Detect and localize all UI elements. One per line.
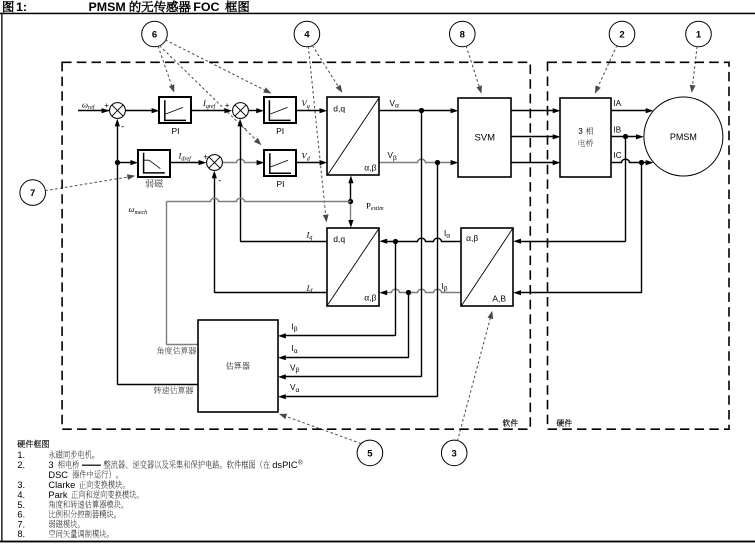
list item 7 text bbox=[49, 520, 80, 529]
svg-text:6: 6 bbox=[152, 29, 157, 40]
callout circle 7 bbox=[20, 180, 46, 206]
svg-text:PMSM: PMSM bbox=[89, 0, 126, 14]
svg-text:A,B: A,B bbox=[492, 294, 506, 304]
wire rho down to Park bbox=[350, 201, 352, 220]
svg-text:4: 4 bbox=[304, 29, 310, 40]
block 3-phase bridge bbox=[560, 98, 611, 177]
wire S1 to PI1 bbox=[125, 110, 152, 112]
svg-text:PI: PI bbox=[276, 179, 284, 189]
wire into estimator input 1 bbox=[285, 335, 395, 337]
wire Id feedback vertical bbox=[214, 178, 216, 293]
svg-text:8: 8 bbox=[460, 29, 465, 40]
wire IC to Clarke bbox=[520, 292, 641, 294]
block Park alpha,beta to d,q bbox=[327, 228, 379, 306]
callout circle 6 bbox=[142, 21, 168, 47]
wire Valpha inv-Park to SVM bbox=[379, 110, 451, 112]
wire IB bridge to PMSM bbox=[612, 136, 637, 138]
label 转速估算器 bbox=[154, 386, 193, 394]
wire Ialpha Clarke to Park bbox=[387, 238, 462, 241]
software dashed box bbox=[62, 62, 530, 429]
svg-text:-: - bbox=[218, 175, 221, 185]
label 硬件 bbox=[557, 419, 572, 426]
block SVM bbox=[458, 98, 511, 177]
svg-text:d,q: d,q bbox=[333, 234, 345, 244]
svg-text:-: - bbox=[244, 124, 247, 134]
wire PI1 to S2 (Iqref) bbox=[192, 110, 225, 112]
leader 6 to PI2 bbox=[165, 40, 264, 90]
leader 4 to inv-Park bbox=[312, 45, 338, 86]
wire speed node to FW block bbox=[117, 162, 131, 164]
svg-text:2.: 2. bbox=[17, 460, 25, 470]
list header 硬件框图 bbox=[17, 440, 49, 448]
block PI2 bbox=[264, 97, 296, 123]
label 软件 bbox=[503, 419, 518, 426]
frame bottom edge bbox=[0, 541, 755, 543]
leader 1 to PMSM bbox=[693, 46, 698, 85]
leader 6 to PI1 bbox=[158, 46, 172, 85]
node IC tap bbox=[639, 160, 644, 165]
list item 6 text bbox=[49, 510, 116, 519]
leader 8 to SVM bbox=[466, 46, 479, 87]
wire angle from estimator horizontal bbox=[167, 198, 351, 201]
svg-text:5: 5 bbox=[367, 448, 373, 459]
wire S3 to PI3 bbox=[222, 159, 257, 162]
svg-text:α,β: α,β bbox=[466, 233, 478, 243]
wire into estimator input 3 bbox=[285, 376, 421, 378]
leader 5 to estimator bbox=[286, 417, 361, 444]
callout circle 2 bbox=[609, 21, 635, 47]
svg-text:-: - bbox=[121, 122, 124, 132]
svg-text:1.: 1. bbox=[17, 450, 25, 460]
callout circle 4 bbox=[294, 21, 320, 47]
svg-text:3: 3 bbox=[452, 448, 457, 459]
wire speed feedback vertical bbox=[117, 126, 119, 385]
frame left edge bbox=[1, 13, 2, 542]
wire into estimator input 4 bbox=[285, 396, 437, 398]
wire Vbeta inv-Park to SVM bbox=[379, 159, 451, 162]
label 估算器 bbox=[226, 362, 250, 370]
wire Iq feedback vertical bbox=[240, 126, 242, 241]
wire IC bridge to PMSM bbox=[612, 159, 647, 162]
node Ialpha tap bbox=[393, 239, 398, 244]
summing junction S3 bbox=[207, 155, 223, 171]
node speed to FW branch bbox=[115, 160, 120, 165]
summing junction S2 bbox=[233, 103, 249, 119]
svg-text:d,q: d,q bbox=[333, 104, 345, 114]
wire IA bridge to PMSM bbox=[612, 110, 647, 112]
wire IB tap vertical bbox=[625, 137, 627, 241]
wire IC tap vertical bbox=[641, 163, 643, 293]
svg-text:4.: 4. bbox=[17, 490, 25, 500]
hardware dashed box bbox=[548, 62, 730, 429]
svg-text:PI: PI bbox=[276, 126, 284, 136]
wire speed from estimator bbox=[117, 384, 198, 386]
svg-text:dsPIC: dsPIC bbox=[272, 460, 298, 470]
svg-text:7.: 7. bbox=[17, 519, 25, 529]
list item 5 text bbox=[49, 500, 124, 509]
wire PI2 to inv-Park (Vq) bbox=[296, 110, 320, 112]
wire rho up to inv-Park bbox=[350, 183, 352, 202]
leader 6 to PI3 bbox=[160, 46, 256, 140]
wire SVM to bridge phase 3 bbox=[511, 162, 553, 164]
wire IB to Clarke bbox=[520, 241, 625, 243]
svg-text:+: + bbox=[225, 101, 230, 110]
node Ibeta tap bbox=[406, 290, 411, 295]
node Valpha tap bbox=[419, 108, 424, 113]
block PI3 bbox=[264, 150, 296, 176]
leader 7 to FW block bbox=[45, 177, 127, 191]
wire Ibeta Clarke to Park bbox=[387, 289, 462, 292]
svg-text:5.: 5. bbox=[17, 500, 25, 510]
figure title "图 1:" bbox=[3, 1, 13, 12]
svg-text:PI: PI bbox=[171, 126, 179, 136]
block field-weakening 弱磁 bbox=[138, 150, 170, 177]
title rule / frame top bbox=[0, 13, 755, 15]
wire Ibeta tap vertical bbox=[408, 293, 410, 358]
motor PMSM circle bbox=[644, 97, 723, 176]
label 角度估算器 bbox=[157, 347, 196, 355]
leader 2 to bridge bbox=[598, 45, 617, 86]
wire SVM to bridge phase 1 bbox=[511, 110, 553, 112]
wire into estimator input 2 bbox=[285, 357, 409, 359]
wire Vbeta tap vertical bbox=[437, 163, 439, 397]
wire FW to S3 (Idref) bbox=[170, 162, 199, 164]
wire SVM to bridge phase 2 bbox=[511, 136, 553, 138]
svg-text:FOC: FOC bbox=[193, 0, 219, 14]
leader 4 to Park bbox=[308, 46, 325, 215]
summing junction S1 bbox=[110, 103, 126, 119]
svg-text:α,β: α,β bbox=[364, 163, 376, 173]
node Vbeta tap bbox=[435, 160, 440, 165]
wire w_ref input bbox=[78, 110, 109, 112]
svg-text:1:: 1: bbox=[16, 0, 27, 14]
node IB tap bbox=[623, 134, 628, 139]
wire Valpha tap vertical bbox=[421, 111, 423, 377]
callout circle 3 bbox=[441, 440, 467, 466]
wire Id from Park to feedback bbox=[214, 292, 327, 294]
block estimator 估算器 bbox=[198, 320, 278, 412]
wire angle vertical bbox=[166, 201, 168, 345]
svg-text:8.: 8. bbox=[17, 529, 25, 539]
wire Iq from Park to feedback bbox=[240, 241, 327, 243]
svg-text:1: 1 bbox=[696, 29, 702, 40]
wire angle from estimator left edge bbox=[167, 344, 198, 346]
list item 8 text bbox=[49, 529, 109, 538]
svg-text:Clarke: Clarke bbox=[48, 480, 75, 490]
leader 3 to Clarke bbox=[457, 318, 490, 441]
svg-text:6.: 6. bbox=[17, 510, 25, 520]
svg-text:DSC: DSC bbox=[48, 470, 68, 480]
svg-text:3.: 3. bbox=[17, 480, 25, 490]
svg-text:PMSM: PMSM bbox=[670, 132, 697, 142]
svg-text:3: 3 bbox=[48, 460, 53, 470]
svg-text:Park: Park bbox=[48, 490, 67, 500]
svg-text:SVM: SVM bbox=[474, 132, 495, 143]
wire PI3 to inv-Park (Vd) bbox=[297, 162, 321, 164]
block inverse Park d,q to alpha,beta bbox=[327, 97, 379, 175]
list item 1 text bbox=[49, 450, 95, 459]
svg-text:7: 7 bbox=[30, 188, 35, 199]
wire S2 to PI2 bbox=[248, 110, 257, 112]
node rho junction bbox=[348, 199, 353, 204]
svg-text:®: ® bbox=[298, 460, 303, 467]
svg-text:IB: IB bbox=[614, 125, 622, 134]
svg-text:IA: IA bbox=[614, 99, 622, 108]
wire Ialpha tap vertical bbox=[395, 241, 397, 336]
block PI1 bbox=[159, 97, 191, 123]
callout circle 1 bbox=[686, 21, 712, 47]
svg-text:IC: IC bbox=[614, 151, 622, 160]
svg-text:α,β: α,β bbox=[364, 293, 376, 303]
block Clarke A,B to alpha,beta bbox=[461, 228, 513, 306]
svg-text:+: + bbox=[104, 101, 109, 110]
svg-text:2: 2 bbox=[619, 29, 624, 40]
label 弱磁 bbox=[146, 179, 163, 187]
callout circle 5 bbox=[357, 440, 383, 466]
svg-text:3: 3 bbox=[578, 127, 583, 136]
callout circle 8 bbox=[450, 21, 476, 47]
